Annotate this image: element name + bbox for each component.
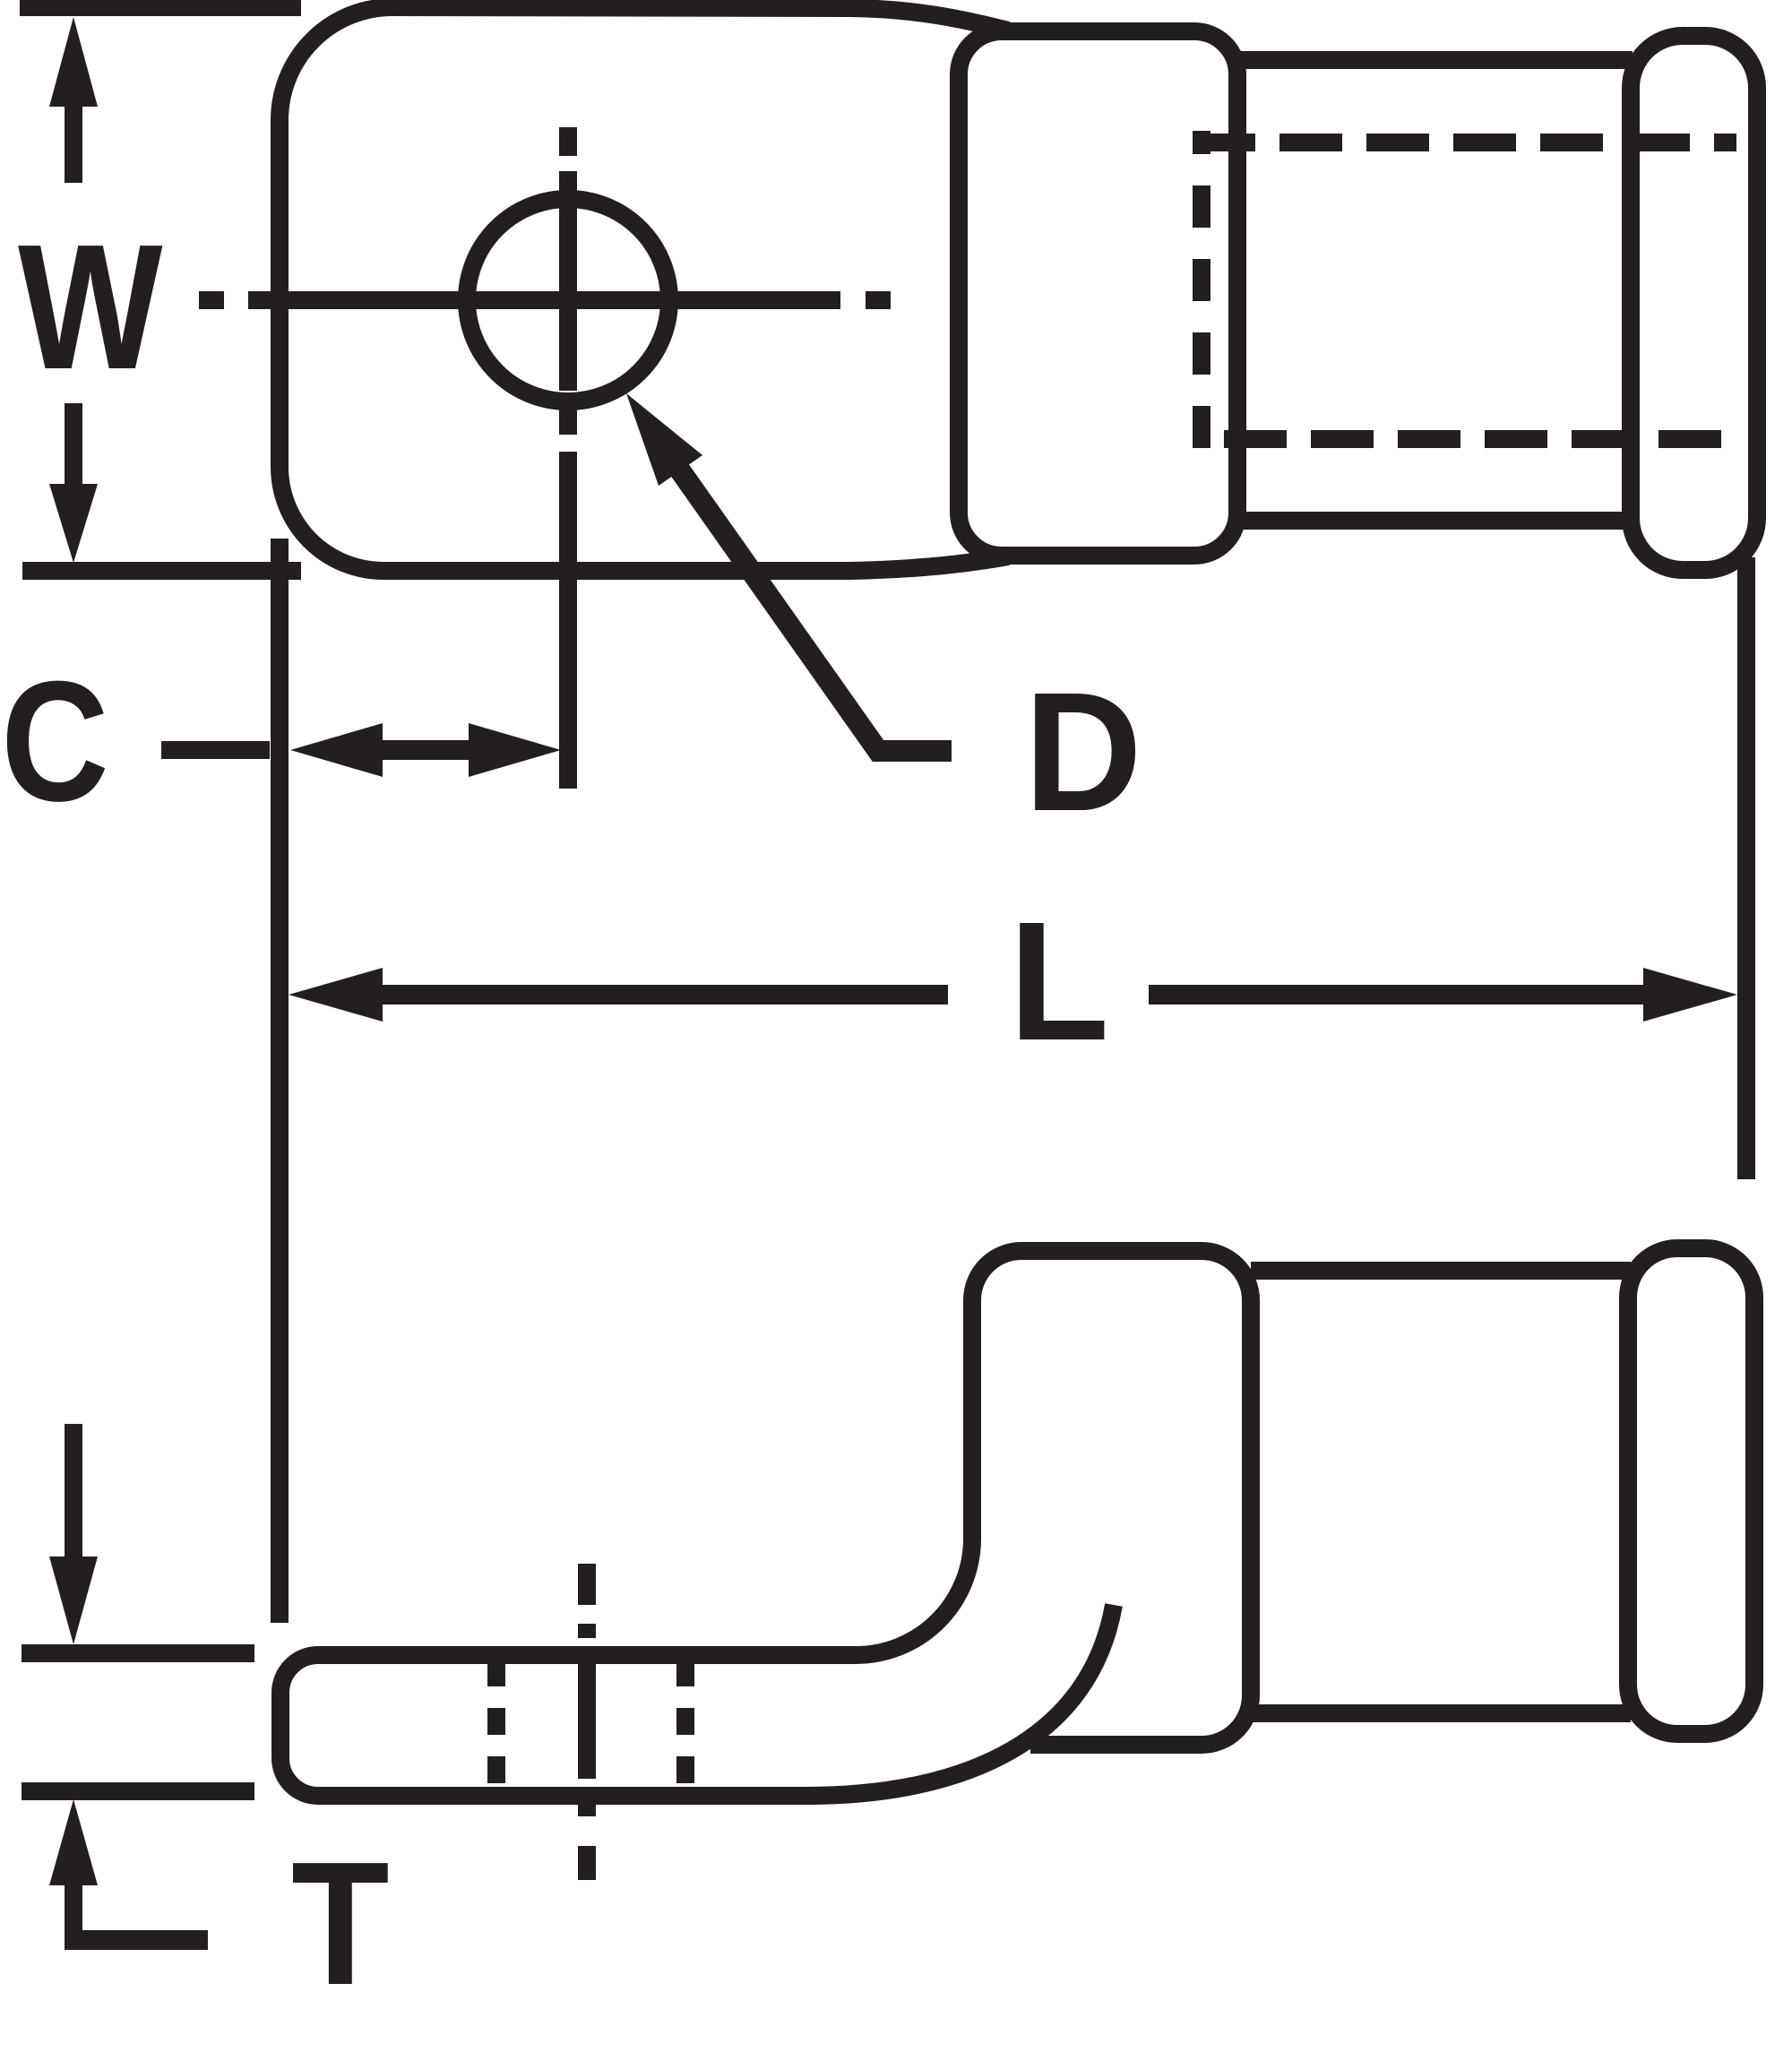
svg-text:C: C [1, 647, 109, 838]
svg-text:W: W [18, 208, 163, 407]
svg-text:D: D [1024, 658, 1142, 847]
svg-text:L: L [1009, 886, 1109, 1075]
svg-text:T: T [291, 1825, 390, 2022]
